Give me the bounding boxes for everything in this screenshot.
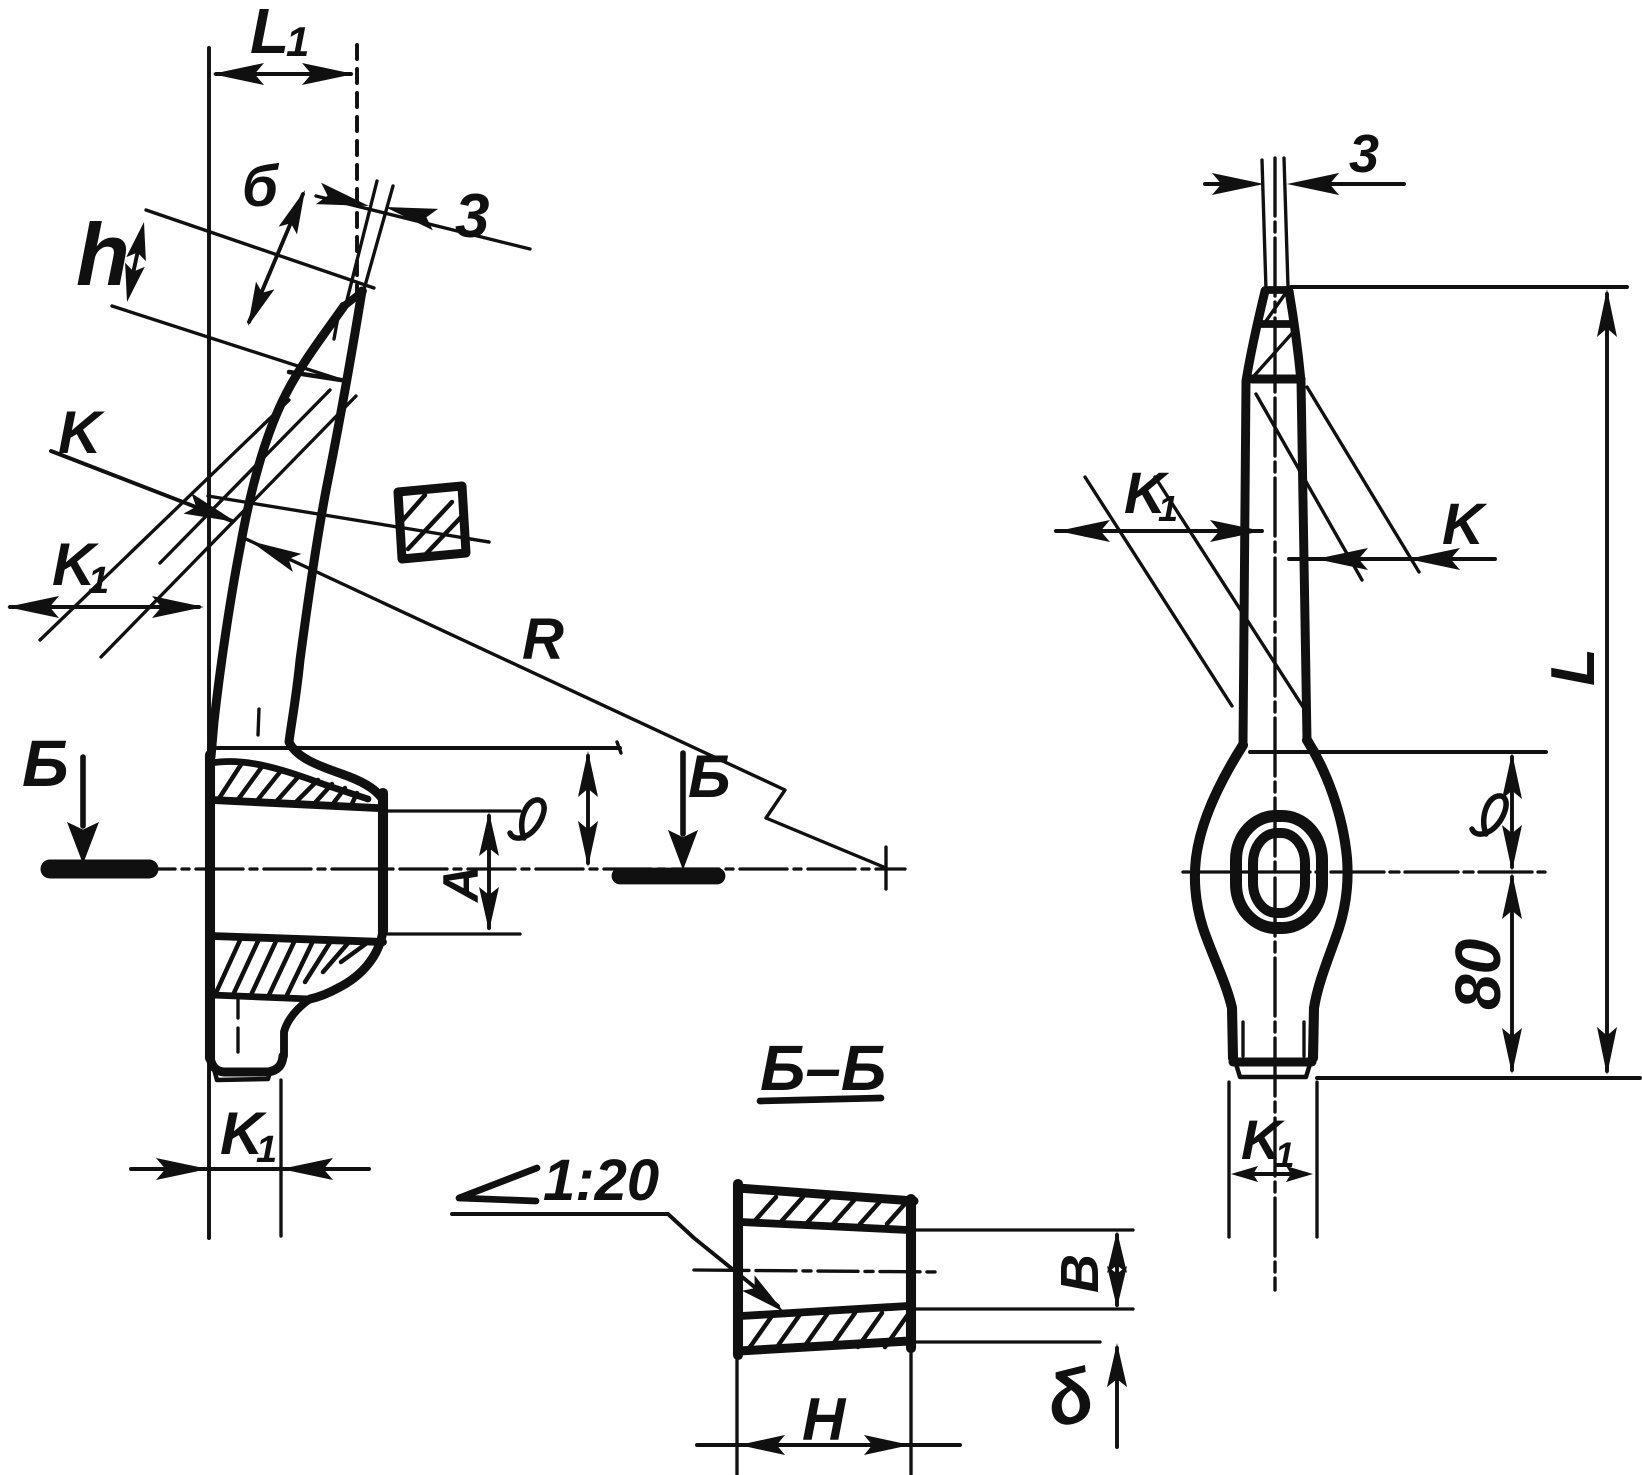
- K1 extension slant lines (right view): [1085, 477, 1232, 706]
- svg-text:K: K: [1442, 492, 1488, 557]
- dimension h: double arrow: [129, 232, 142, 292]
- section: bottom edge: [739, 1341, 909, 1351]
- svg-text:80: 80: [1442, 939, 1514, 1010]
- right view: vertical centerline: [1273, 158, 1276, 1290]
- dimension b (blade thickness): slanted line with arrows: [249, 194, 303, 322]
- right view: inner chamfer lines: [1241, 1022, 1244, 1056]
- svg-text:Н: Н: [802, 1386, 847, 1453]
- section: taper line (hole bottom): [741, 1306, 908, 1316]
- svg-text:б: б: [242, 154, 280, 219]
- dimension K (right view): [1289, 557, 1495, 561]
- right view: bottom tip face: [1233, 1058, 1312, 1067]
- dimension z (left view): dimension line with arrows: [316, 196, 530, 249]
- section: top edge: [738, 1188, 914, 1201]
- left view: bottom tip face: [210, 1056, 283, 1072]
- dimension z (right view): arrows and lines: [1205, 182, 1252, 186]
- right view: bevel diagonals: [1266, 294, 1285, 321]
- taper symbol 1:20: [459, 1168, 537, 1201]
- section: extension lines below: [735, 1357, 738, 1474]
- section arrow B right: thick trace bar: [620, 868, 717, 885]
- section: hole top line: [741, 1222, 908, 1230]
- section title underline: [760, 1098, 881, 1101]
- left view: bottom tip inner line: [214, 1069, 271, 1080]
- dimension K1 (bottom of left view): [131, 1167, 369, 1171]
- dimension L (right view): [1605, 294, 1609, 1071]
- section: top hatch strokes: [752, 1197, 776, 1224]
- section: left edge: [733, 1184, 743, 1355]
- K extension line parallel to blade: [160, 390, 330, 563]
- svg-text:L: L: [1539, 648, 1608, 686]
- dimension L1: dimension line with outward arrows: [216, 72, 351, 76]
- svg-text:Б–Б: Б–Б: [760, 1032, 886, 1104]
- right view: bulge left edge: [1195, 745, 1243, 1058]
- svg-text:Б: Б: [22, 726, 69, 800]
- svg-text:1: 1: [88, 560, 109, 602]
- left view: lower hatch band strokes: [215, 938, 241, 995]
- label l (left view, script ell): [510, 800, 544, 838]
- left view: boss top arc (hatch band top): [212, 761, 368, 799]
- right view: eye top line across and extension for l: [1250, 750, 1546, 754]
- taper leader line with arrow: [452, 1214, 778, 1306]
- dimension K1 (bottom right view): outward arrows: [1238, 1172, 1306, 1176]
- right view: upper weld bar 3: [1252, 375, 1301, 384]
- left view: R center tick: [884, 847, 887, 889]
- svg-text:R: R: [522, 607, 564, 672]
- left view: blade right edge: [289, 291, 381, 797]
- left view: eye hole bottom line: [212, 936, 383, 942]
- svg-text:1: 1: [256, 1129, 277, 1171]
- dimension A: vertical double arrow: [487, 816, 491, 928]
- dimension l (right view): [1510, 757, 1514, 867]
- svg-text:1: 1: [1158, 488, 1178, 529]
- section arrow B right: arrow: [680, 753, 686, 834]
- left view: boss left edge: [205, 755, 215, 1058]
- dimension K: leader with arrow to blade edge: [51, 451, 232, 521]
- dimension H (section): [697, 1443, 960, 1447]
- right view: bottom extension line: [1317, 1076, 1640, 1080]
- left view: lower blade center dashes: [236, 996, 239, 1018]
- svg-text:В: В: [1050, 1254, 1110, 1293]
- right view: eye inner oval: [1253, 833, 1305, 913]
- left view: extension line (left, vertical): [207, 48, 211, 1238]
- right view: blade right edge: [1289, 291, 1307, 740]
- svg-text:3: 3: [1349, 124, 1379, 184]
- left view: eye hole top line: [212, 800, 377, 808]
- right view: eye outer oval: [1236, 816, 1322, 928]
- dimension K1 (mid left): dimension line with arrows: [10, 605, 199, 609]
- section arrow B left: thick trace bar: [50, 859, 149, 878]
- left view: extension line (right, dashed vertical): [355, 45, 359, 298]
- right view: bottom tip inner line: [1236, 1064, 1310, 1077]
- left view: A-dimension extension lines: [388, 809, 520, 812]
- blade section square (hatched): [398, 486, 466, 559]
- left view: blade centerline dashes: [334, 317, 338, 339]
- right view: blade tip face: [1265, 286, 1289, 294]
- section: centerline: [694, 1270, 938, 1272]
- svg-text:1: 1: [286, 18, 309, 65]
- left view: l-dimension top extension line: [210, 746, 620, 750]
- svg-text:L: L: [250, 0, 289, 67]
- K extension slant lines (right view): [1256, 394, 1362, 580]
- dimension l (left view): vertical double arrow: [586, 756, 590, 863]
- dimension V (section): [1115, 1235, 1119, 1305]
- section: bottom hatch strokes: [750, 1313, 774, 1347]
- left view: boss right edge: [378, 793, 388, 931]
- dimension K1 (right view): [1056, 529, 1262, 533]
- svg-text:A: A: [433, 866, 489, 904]
- svg-text:h: h: [76, 205, 130, 304]
- svg-text:1: 1: [1275, 1136, 1294, 1175]
- dimension 80 (right view): [1510, 877, 1514, 1070]
- dimension h: extension lines perpendicular to blade: [146, 210, 374, 288]
- section: B extension lines right: [916, 1228, 1133, 1231]
- left view: top hatch band strokes: [218, 763, 242, 800]
- left view: lower hatch band bottom line: [212, 995, 310, 999]
- right view: top extension line for L: [1291, 285, 1627, 289]
- leader line through section square: [208, 496, 489, 542]
- K1 extension slant lines: [40, 400, 289, 640]
- left view: hardened zone boundary across blade: [289, 372, 341, 380]
- left view: lower blade right edge: [284, 999, 310, 1056]
- svg-text:3: 3: [455, 182, 489, 251]
- section arrow B left: arrow: [80, 757, 86, 826]
- svg-text:1:20: 1:20: [543, 1148, 659, 1213]
- left view: blade tip bevel edge: [343, 291, 363, 307]
- leader continuation across square: [398, 527, 489, 542]
- left view: blade left edge: [211, 306, 344, 757]
- section: right edge: [906, 1199, 916, 1348]
- z extension lines along blade: [345, 181, 377, 308]
- right view: blade left edge: [1243, 291, 1265, 745]
- left view: horizontal centerline: [60, 867, 905, 870]
- right view: horizontal centerline: [1183, 870, 1545, 873]
- svg-text:K: K: [58, 399, 105, 466]
- left view: boss lower-right curve: [310, 931, 383, 999]
- label l (right view, script ell): [1472, 796, 1506, 834]
- right view: bottom tip extension lines: [1227, 1082, 1230, 1237]
- left view: extension line below right: [279, 1080, 282, 1236]
- right view: upper weld bar 2: [1261, 320, 1293, 328]
- radius R: leader with arrow and zigzag to center tick: [250, 541, 301, 572]
- z extension lines (right view): [1262, 160, 1266, 290]
- dimension delta (section): [1115, 1348, 1119, 1447]
- right view: bulge right edge: [1307, 740, 1348, 1058]
